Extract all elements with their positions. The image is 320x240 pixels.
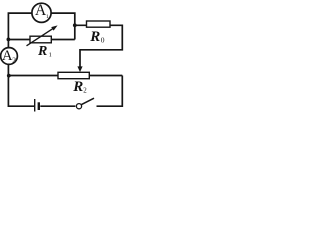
wire left lower + bottom-left corner segment [8, 65, 34, 107]
wire R0 branch + right drop + wiper feed [75, 25, 123, 67]
node junction dot: left wire to R1 branch [6, 38, 10, 42]
svg-text:R: R [37, 44, 47, 59]
svg-text:2: 2 [83, 87, 87, 95]
resistor R0 box [87, 21, 111, 27]
wire R2 branch [8, 75, 122, 77]
switch pivot circle [76, 104, 81, 109]
ammeter A2 [1, 48, 18, 65]
label R2 [72, 79, 87, 95]
resistor R1 rheostat box [30, 36, 51, 43]
svg-text:0: 0 [101, 35, 105, 44]
R2 wiper arrowhead [77, 66, 82, 72]
svg-text:2: 2 [12, 55, 16, 64]
battery short thick plate [38, 102, 40, 110]
label R1 [37, 44, 52, 59]
svg-text:R: R [89, 29, 100, 45]
svg-text:1: 1 [46, 14, 49, 20]
wire right lower vertical + bottom-right corner segment [97, 76, 123, 107]
ammeter A1 [32, 2, 51, 23]
svg-text:R: R [72, 79, 83, 95]
R1 slider diagonal arrow [27, 25, 58, 45]
wire bottom: battery to switch [40, 105, 75, 107]
svg-text:1: 1 [49, 52, 52, 59]
switch lever [81, 98, 94, 105]
node junction dot: vertical to R0 branch [73, 23, 77, 27]
wire top-left loop (left wire upper + top wire + vertical drop to R1 branch) [8, 13, 74, 48]
battery long plate [34, 99, 36, 112]
resistor R2 potentiometer box [58, 72, 89, 78]
node junction dot: left wire to R2 branch [7, 74, 11, 78]
label R0 [89, 29, 105, 45]
wire R1 branch [8, 39, 74, 41]
